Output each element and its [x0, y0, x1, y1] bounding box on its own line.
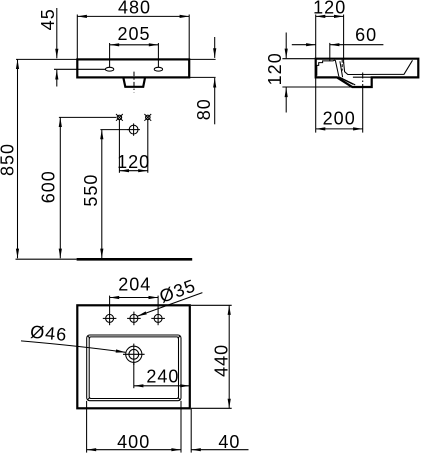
- dimension 205 line: [110, 44, 159, 46]
- side view: washbasin profile outline: [316, 59, 419, 87]
- side view: faucet hole section dashes: [341, 60, 343, 71]
- svg-text:205: 205: [117, 24, 150, 44]
- svg-text:204: 204: [118, 275, 151, 295]
- svg-text:200: 200: [323, 109, 356, 129]
- front view: left wall fixing hole: [116, 114, 123, 121]
- dimension 120 left bottom arrow: [285, 88, 287, 113]
- dimension 440 line: [228, 305, 230, 408]
- side view: overflow channel wall line: [340, 61, 343, 77]
- dimension 60 left arrow: [292, 44, 316, 46]
- dimension 45 upper arrow: [56, 8, 58, 58]
- front view: drain center line: [133, 72, 135, 93]
- dimension 204 extension right: [157, 296, 159, 312]
- plan view: faucet hole left: [103, 312, 117, 326]
- floor line thin: [16, 258, 77, 260]
- dimension 120 front line: [119, 170, 147, 172]
- plan view: washbasin outline: [77, 305, 190, 408]
- dimension 60 right arrow: [330, 44, 384, 46]
- plan view: rim corner diagonals: [88, 336, 181, 400]
- dimension 120 left bottom reference line: [282, 86, 353, 88]
- dimension 120 left top arrow: [285, 33, 287, 59]
- dimension 240 extension: [133, 363, 135, 388]
- dimension 120 left top reference line: [282, 58, 315, 60]
- front view: top edge extension line right: [189, 58, 215, 60]
- dimension 850 line: [17, 59, 19, 258]
- plan view: basin outer rim: [87, 335, 181, 401]
- svg-text:45: 45: [38, 8, 58, 30]
- plan view: faucet hole middle: [127, 312, 141, 326]
- svg-text:480: 480: [118, 0, 151, 18]
- floor line thick: [77, 258, 193, 261]
- svg-text:40: 40: [218, 432, 240, 452]
- side view: basin interior profile: [344, 60, 413, 74]
- dimension 600 reference line: [59, 116, 116, 118]
- svg-text:600: 600: [39, 170, 59, 203]
- dimension 204 line: [110, 297, 159, 299]
- dimension 120 front extension right: [147, 120, 149, 173]
- svg-text:80: 80: [194, 98, 214, 120]
- svg-text:400: 400: [117, 432, 150, 452]
- dimension 240 line: [134, 385, 190, 387]
- dimension 80 lower arrow: [214, 78, 216, 124]
- front view: drain outlet circle: [127, 123, 140, 135]
- leader diameter 35: [137, 293, 202, 317]
- dimension 45 lower arrow: [56, 70, 58, 87]
- dimension 400 extension middle: [180, 401, 182, 453]
- svg-text:240: 240: [146, 366, 179, 386]
- dimension 120 side line: [316, 15, 344, 17]
- dimension 600 line: [59, 117, 61, 258]
- svg-text:440: 440: [211, 344, 231, 377]
- dimension 480 line: [77, 15, 189, 17]
- front view: faucet hole left ellipse: [105, 67, 113, 71]
- side view: hidden bottom line over drain boss: [353, 76, 372, 78]
- front view: washbasin outline: [77, 59, 189, 77]
- front view: faucet hole center line: [54, 68, 105, 70]
- svg-text:550: 550: [81, 174, 101, 207]
- dimension 550 line: [101, 130, 103, 259]
- dimension 204 extension left: [109, 296, 111, 312]
- svg-text:120: 120: [265, 52, 285, 85]
- dimension 440 extension top: [191, 304, 232, 306]
- svg-text:850: 850: [0, 143, 18, 176]
- plan view: basin inner rim: [89, 337, 178, 399]
- dimension 120 front extension left: [118, 120, 120, 173]
- front view: bottom edge extension line right: [189, 76, 215, 78]
- side view: drain channel inner line 2: [340, 78, 353, 84]
- dimension 200 line: [316, 128, 363, 130]
- dimension 400 extension left: [86, 401, 88, 453]
- svg-text:120: 120: [313, 0, 346, 18]
- dimension 400 line: [87, 449, 181, 451]
- svg-text:120: 120: [117, 152, 150, 172]
- dimension 480 extension left: [76, 15, 78, 60]
- plan view: faucet hole right: [151, 312, 165, 326]
- dimension 60 extension: [329, 43, 331, 61]
- dimension 200 extension left: [315, 78, 317, 133]
- dimension 550 reference line: [100, 129, 129, 131]
- front view: drain trap outline: [124, 78, 145, 87]
- dimension 120 side extension right: [343, 15, 345, 64]
- dimension 205 extension right: [157, 43, 159, 67]
- side view: drain center line dashed: [362, 73, 364, 88]
- dimension 40 arrow: [191, 449, 248, 451]
- front view: right wall fixing hole: [144, 114, 151, 121]
- plan view: drain outer circle: [123, 344, 145, 365]
- dimension 200 extension right: [362, 88, 364, 133]
- dimension 40 extension right: [190, 409, 192, 453]
- dimension 80 upper arrow: [214, 37, 216, 58]
- dimension 440 extension bottom: [191, 407, 232, 409]
- side view: wall bracket section profile: [317, 60, 339, 77]
- leader diameter 46: [21, 341, 125, 352]
- dimension 205 extension left: [109, 43, 111, 67]
- dimension 120 side extension left: [315, 15, 317, 59]
- svg-text:60: 60: [355, 25, 377, 45]
- dimension 480 extension right: [188, 15, 190, 60]
- svg-text:Ø46: Ø46: [29, 322, 68, 345]
- front view: top edge extension line left: [16, 58, 77, 60]
- front view: faucet hole right ellipse: [154, 67, 162, 71]
- side view: drain channel inner line 1: [339, 77, 355, 85]
